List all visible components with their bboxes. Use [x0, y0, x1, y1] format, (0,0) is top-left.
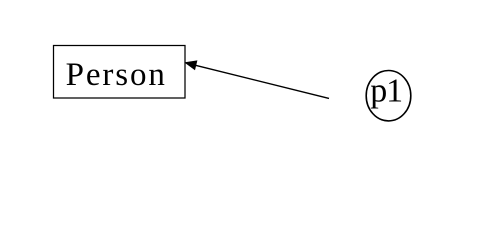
svg-text:p1: p1	[370, 72, 402, 109]
arrowhead	[185, 61, 197, 70]
wire arrow line p1 to Person	[192, 64, 329, 98]
rectangle node Person	[54, 46, 186, 99]
ellipse node p1	[366, 71, 411, 121]
svg-text:Person: Person	[66, 57, 167, 93]
